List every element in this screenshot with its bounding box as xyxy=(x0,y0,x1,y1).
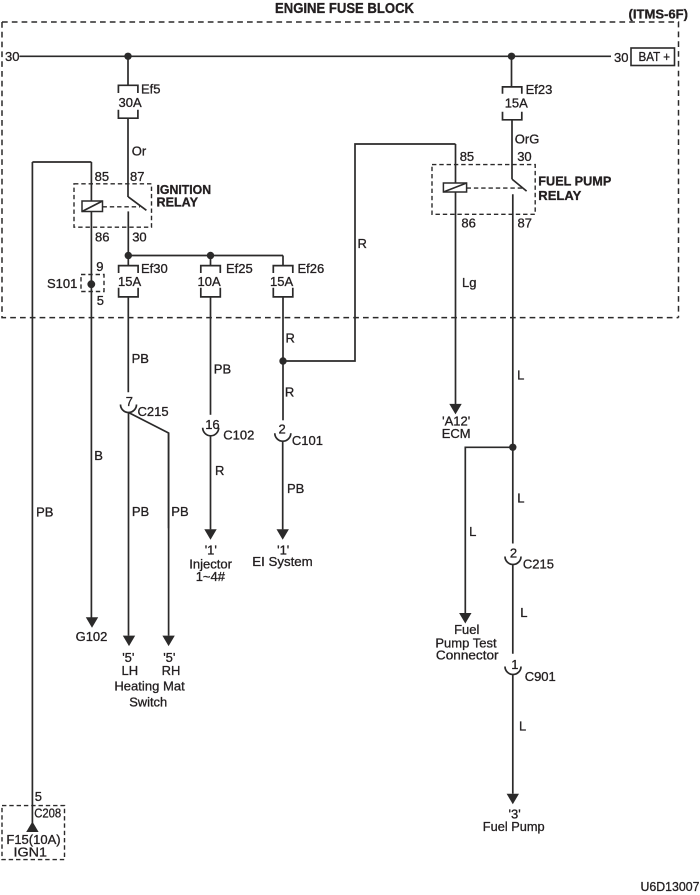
svg-text:C901: C901 xyxy=(525,669,556,684)
svg-text:R: R xyxy=(215,463,224,478)
svg-text:L: L xyxy=(517,490,524,505)
svg-text:15A: 15A xyxy=(118,274,141,289)
svg-text:30: 30 xyxy=(517,149,531,164)
svg-text:16: 16 xyxy=(205,417,219,432)
svg-text:87: 87 xyxy=(518,216,532,231)
svg-text:L: L xyxy=(469,524,476,539)
svg-text:9: 9 xyxy=(96,259,103,274)
svg-text:85: 85 xyxy=(95,169,109,184)
svg-text:C208: C208 xyxy=(34,806,61,821)
svg-text:C215: C215 xyxy=(138,404,169,419)
svg-text:30: 30 xyxy=(5,49,19,64)
svg-text:C101: C101 xyxy=(292,433,323,448)
svg-text:LH: LH xyxy=(122,663,139,678)
svg-text:R: R xyxy=(358,236,367,251)
svg-text:ECM: ECM xyxy=(442,426,471,441)
svg-text:Switch: Switch xyxy=(129,695,167,710)
svg-text:2: 2 xyxy=(279,422,286,437)
svg-text:86: 86 xyxy=(95,229,109,244)
svg-text:30: 30 xyxy=(132,229,146,244)
svg-text:R: R xyxy=(285,384,294,399)
svg-text:5: 5 xyxy=(97,293,104,308)
svg-text:15A: 15A xyxy=(505,95,528,110)
svg-text:PB: PB xyxy=(132,351,149,366)
svg-text:BAT +: BAT + xyxy=(639,49,671,64)
svg-text:Heating Mat: Heating Mat xyxy=(114,679,185,694)
svg-text:PB: PB xyxy=(132,504,149,519)
svg-text:PB: PB xyxy=(214,362,231,377)
svg-text:Ef23: Ef23 xyxy=(526,82,553,97)
svg-text:Ef5: Ef5 xyxy=(141,82,161,97)
svg-text:U6D13007: U6D13007 xyxy=(641,879,700,894)
svg-text:RH: RH xyxy=(162,663,181,678)
svg-text:G102: G102 xyxy=(76,629,108,644)
svg-text:5: 5 xyxy=(35,789,42,804)
svg-text:Fuel Pump: Fuel Pump xyxy=(483,819,545,834)
svg-text:RELAY: RELAY xyxy=(157,195,199,210)
svg-text:'1': '1' xyxy=(205,543,217,558)
svg-text:PB: PB xyxy=(287,481,304,496)
svg-text:(ITMS-6F): (ITMS-6F) xyxy=(629,6,689,21)
svg-text:15A: 15A xyxy=(270,274,293,289)
svg-text:L: L xyxy=(517,367,524,382)
svg-text:L: L xyxy=(519,719,526,734)
svg-text:87: 87 xyxy=(130,169,144,184)
svg-text:L: L xyxy=(520,605,527,620)
svg-text:IGN1: IGN1 xyxy=(14,844,48,859)
svg-text:86: 86 xyxy=(461,216,475,231)
svg-text:Connector: Connector xyxy=(436,648,499,663)
svg-text:Ef26: Ef26 xyxy=(298,261,325,276)
svg-text:PB: PB xyxy=(171,504,188,519)
svg-text:1~4#: 1~4# xyxy=(196,569,226,584)
svg-text:30A: 30A xyxy=(119,95,142,110)
svg-text:2: 2 xyxy=(510,546,517,561)
svg-text:85: 85 xyxy=(460,149,474,164)
svg-text:RELAY: RELAY xyxy=(538,188,581,203)
svg-text:PB: PB xyxy=(36,505,53,520)
svg-text:EI System: EI System xyxy=(252,554,312,569)
svg-text:C102: C102 xyxy=(223,428,254,443)
svg-text:Lg: Lg xyxy=(462,275,476,290)
svg-text:B: B xyxy=(94,448,103,463)
svg-text:Ef25: Ef25 xyxy=(226,261,253,276)
svg-text:C215: C215 xyxy=(523,557,554,572)
svg-text:S101: S101 xyxy=(47,276,77,291)
svg-text:ENGINE FUSE BLOCK: ENGINE FUSE BLOCK xyxy=(275,1,414,17)
svg-text:Ef30: Ef30 xyxy=(141,261,168,276)
svg-text:FUEL PUMP: FUEL PUMP xyxy=(538,174,611,189)
svg-text:30: 30 xyxy=(614,50,628,65)
svg-text:Or: Or xyxy=(132,143,147,158)
svg-text:R: R xyxy=(286,330,295,345)
svg-text:OrG: OrG xyxy=(515,132,540,147)
svg-text:1: 1 xyxy=(511,657,518,672)
svg-text:10A: 10A xyxy=(198,274,221,289)
svg-text:7: 7 xyxy=(126,394,133,409)
